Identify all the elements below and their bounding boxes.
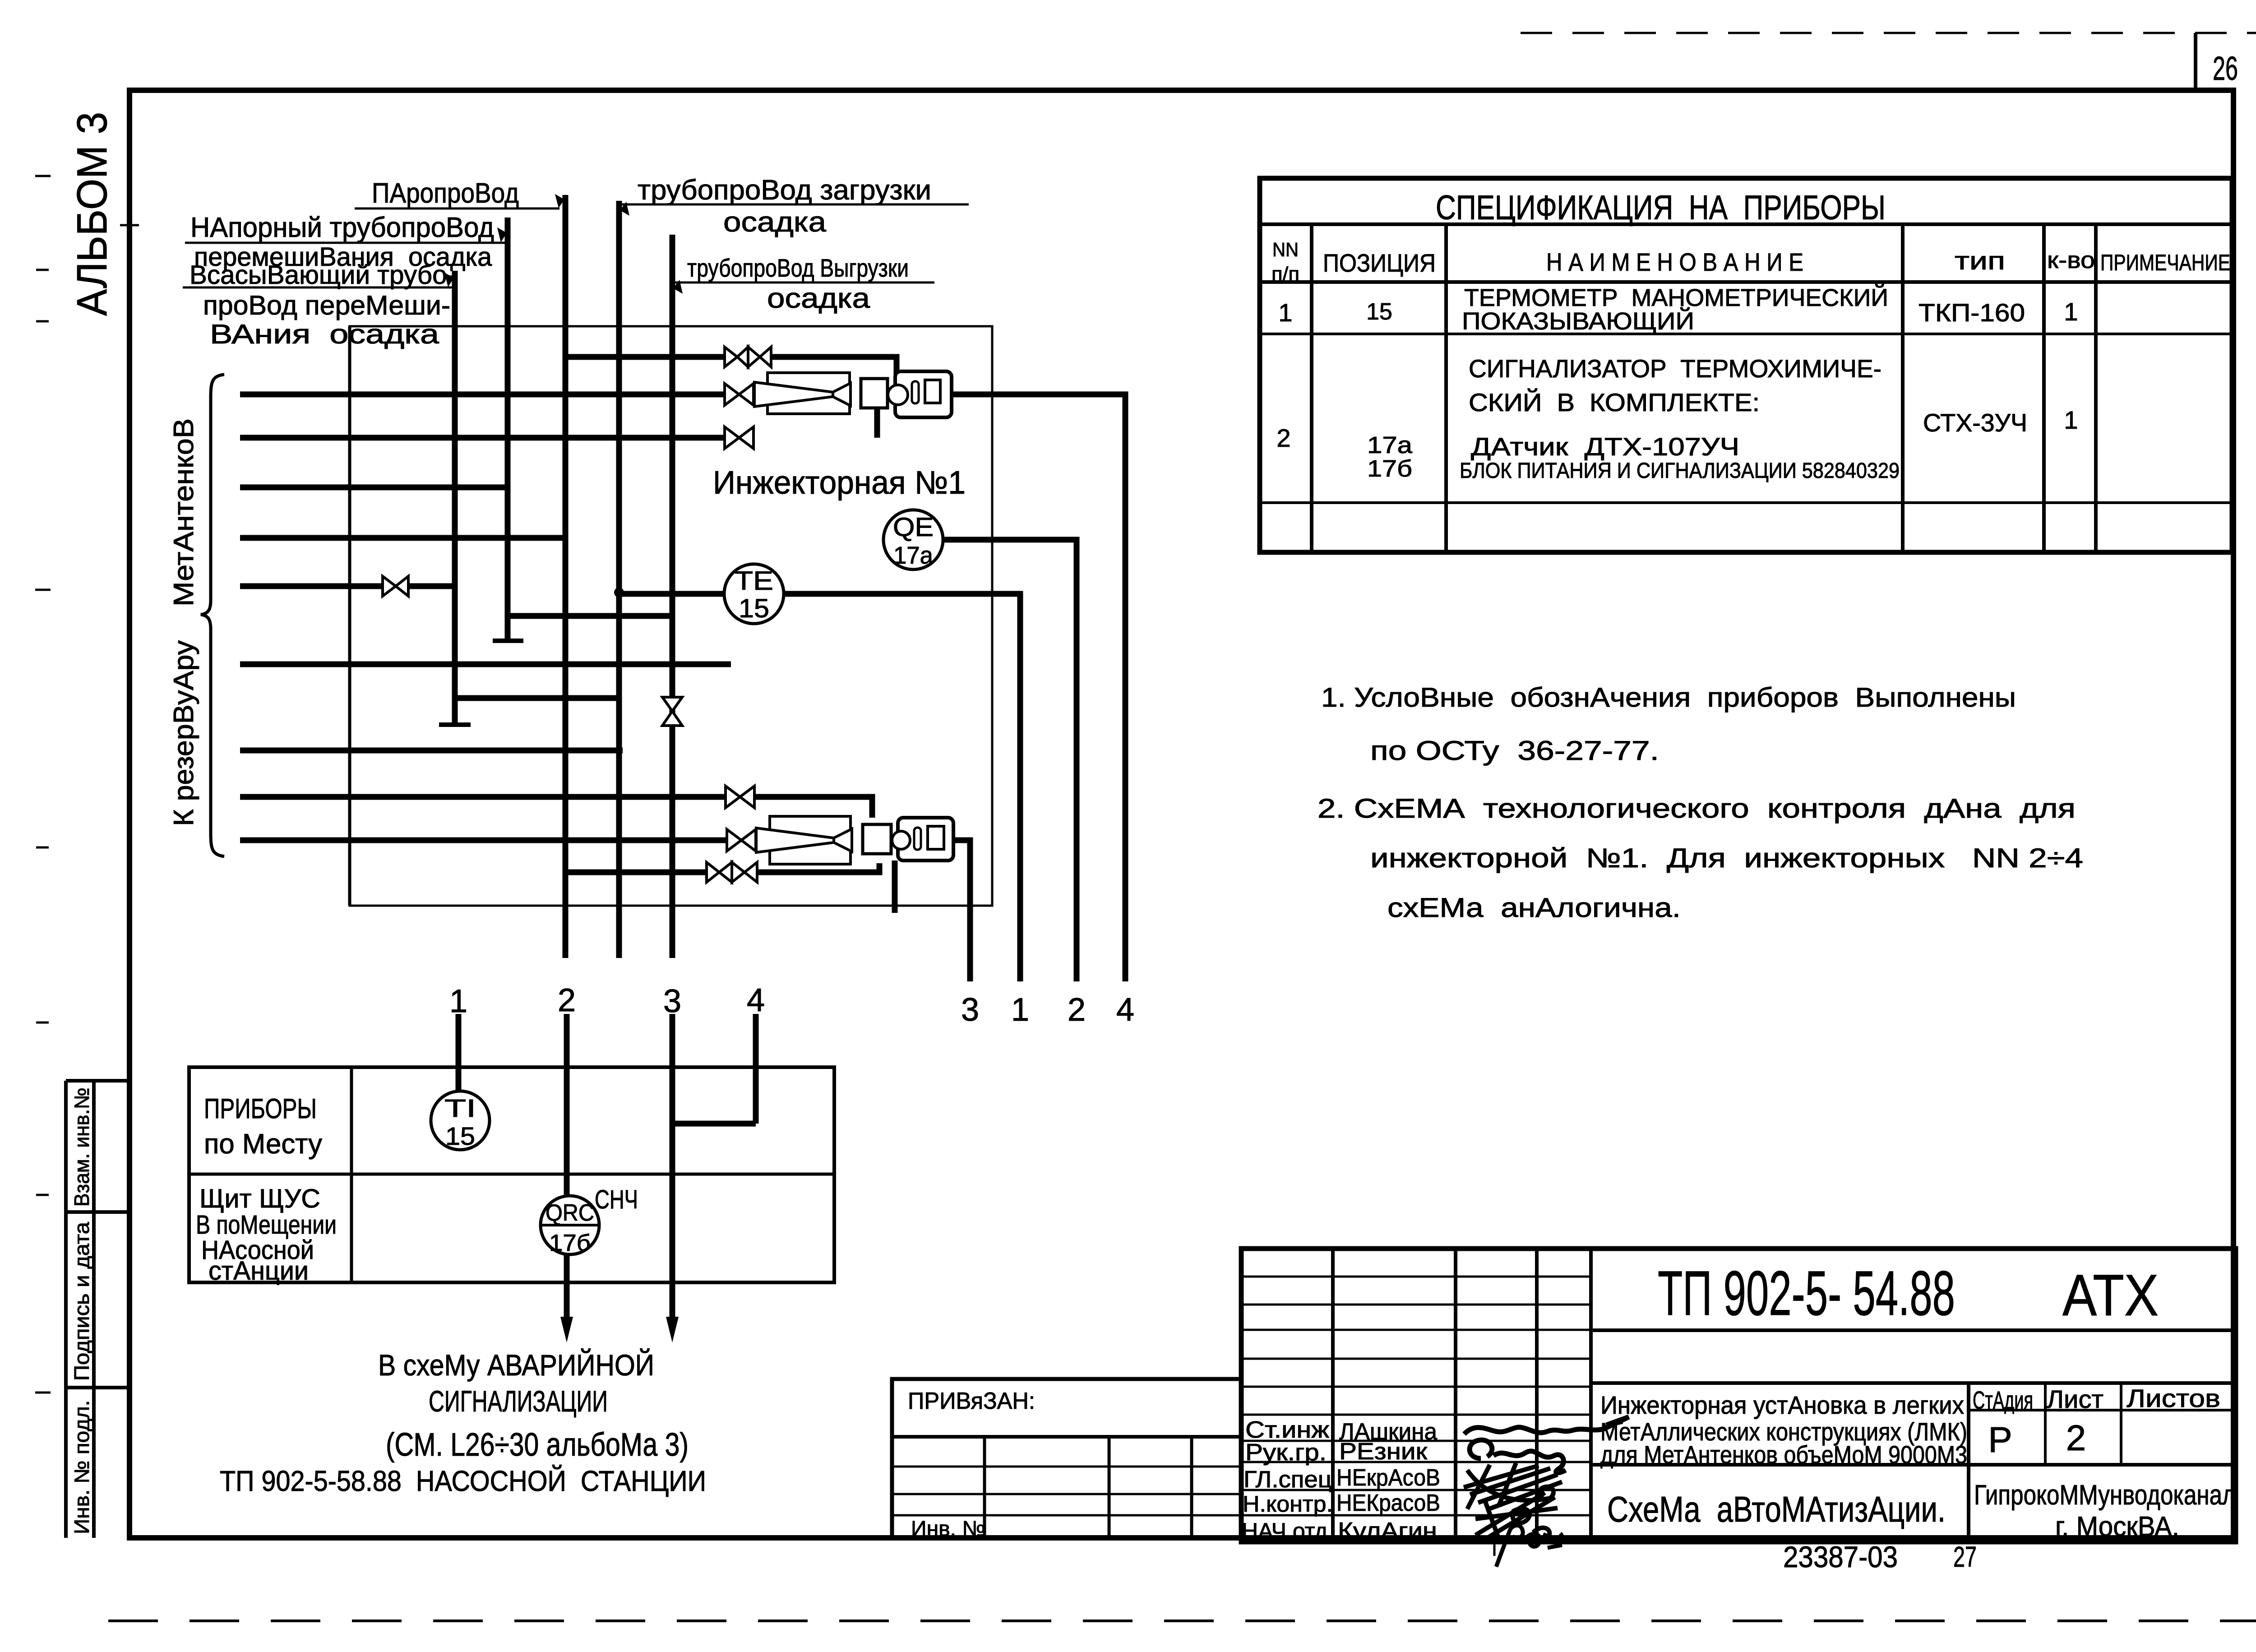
steam branch after valves [770,357,897,385]
svg-text:QE: QE [893,513,934,542]
injector 1 outlet to right riser 4 [951,394,1125,981]
svg-text:Инв. №: Инв. № [911,1517,985,1541]
spec column тип [2042,224,2046,552]
injector 2 pump block [863,824,891,854]
left margin fold marks [35,176,51,1393]
svg-text:трубопроВод Выгрузки: трубопроВод Выгрузки [687,254,909,282]
svg-text:ВАния осадка: ВАния осадка [210,319,439,349]
injector room enclosure (thin rect) [348,326,351,906]
riser V3 напорный [505,217,511,641]
svg-text:К резерВуАру: К резерВуАру [168,640,199,826]
instrument QRC17b [541,1196,599,1254]
injector 2 venturi cone [756,828,834,852]
svg-text:по Месту: по Месту [204,1129,322,1160]
pipe H2 return [240,435,725,441]
arrow to riser V3 [497,227,507,242]
line 3 full [670,1014,675,1324]
location table frame [189,1067,834,1282]
svg-text:ТЕРМОМЕТР МАНОМЕТРИЧЕСКИЙ: ТЕРМОМЕТР МАНОМЕТРИЧЕСКИЙ [1464,284,1888,311]
injector 1 circle [888,385,908,405]
svg-text:15: 15 [739,594,769,623]
H2 return riser at injector 1 [874,409,880,438]
привязан rows [892,1466,1240,1468]
лист divider [2044,1383,2047,1465]
svg-text:1: 1 [2064,406,2078,434]
injector 2 outlet to right riser 3 [953,840,970,981]
svg-text:ТП 902-5-58.88 НАСОСНОЙ СТАН: ТП 902-5-58.88 НАСОСНОЙ СТАНЦИИ [220,1464,706,1497]
valve on H9 [727,829,756,851]
svg-text:к-во: к-во [2047,247,2095,273]
svg-text:23387-03: 23387-03 [1783,1540,1898,1573]
svg-text:АТХ: АТХ [2062,1262,2159,1328]
junction dot on V5 [614,588,624,597]
double valve on steam branch [725,347,771,367]
injector 2 circle [892,831,910,849]
svg-text:НЕКрасоВ: НЕКрасоВ [1336,1490,1440,1516]
svg-text:МетАнтенкоВ: МетАнтенкоВ [168,418,199,606]
underline загрузки [617,204,969,206]
svg-text:ВсасыВающий трубо-: ВсасыВающий трубо- [190,260,456,290]
svg-text:БЛОК ПИТАНИЯ И СИГНАЛИЗАЦИИ 58: БЛОК ПИТАНИЯ И СИГНАЛИЗАЦИИ 582840329 [1460,459,1900,483]
стадия column divider [1967,1383,1970,1543]
pipe H8 to injector 2 [240,794,726,800]
svg-text:26: 26 [2213,50,2238,87]
svg-text:Р: Р [1988,1420,2012,1460]
svg-text:NN: NN [1272,239,1299,261]
injector 2 drain stub [892,861,898,913]
pipe H1 to injector 1 [240,392,725,398]
svg-text:2: 2 [1068,992,1086,1028]
instrument TE15 [724,564,784,624]
svg-text:РЕзник: РЕзник [1339,1439,1427,1465]
injector 1 diffuser [833,383,851,406]
svg-text:1. УслоВные обознАчения приб: 1. УслоВные обознАчения приборов Выполне… [1321,682,2016,713]
valve on H2 [725,427,754,449]
svg-text:27: 27 [1953,1541,1977,1573]
spec table header bottom line [1260,280,2232,284]
line 2 upper [564,1014,570,1197]
V2 end cap [439,722,471,727]
bottom branch C after valves [757,863,879,872]
arrow to steam riser [555,194,564,208]
svg-text:2: 2 [2066,1418,2086,1458]
injector 2 diffuser [834,829,852,851]
svg-text:СТХ-3УЧ: СТХ-3УЧ [1923,408,2027,437]
title block column 1 [1331,1249,1335,1543]
svg-text:п/п: п/п [1271,263,1299,285]
svg-text:стАнции: стАнции [208,1256,309,1286]
lower risers label row: line 1 [456,1014,462,1091]
bottom branch line C [565,870,707,875]
привязан block outline [892,1379,1240,1538]
svg-text:ПРИБОРЫ: ПРИБОРЫ [204,1093,317,1124]
crossover jog V3-V6 [506,613,671,619]
underline напорный [185,242,509,244]
svg-text:Взам. инв.№: Взам. инв.№ [70,1087,93,1207]
svg-text:2: 2 [558,982,576,1018]
riser V4 паропровод [563,195,569,958]
top trim dashed line [1521,32,2256,34]
svg-text:Н.контр.: Н.контр. [1243,1491,1333,1517]
svg-text:17а: 17а [893,542,934,569]
sheet number divider [2194,33,2197,93]
title block column 2 [1454,1249,1457,1543]
injector 1 box square [925,380,940,403]
svg-text:Щит ЩУС: Щит ЩУС [199,1184,320,1213]
injector 2 box bar [914,828,921,850]
svg-text:ПАропроВод: ПАропроВод [372,178,519,209]
svg-text:осадка: осадка [767,283,870,314]
svg-text:4: 4 [747,982,765,1018]
injector 1 mixer rect [767,373,850,414]
pipe H7 [240,748,623,754]
brace к резервуару метантенков [201,375,224,856]
riser V6 выгрузки [670,235,675,958]
svg-text:Листов: Листов [2127,1384,2220,1412]
svg-text:3: 3 [663,983,681,1019]
svg-text:для МетАнтенков объеМоМ 9000М3: для МетАнтенков объеМоМ 9000М3 [1600,1440,1967,1469]
line 4 [753,1014,759,1124]
injector 1 instrument box [895,371,952,417]
riser V2 всасывающий [452,271,458,725]
TE line to right riser 1 [784,594,1020,981]
svg-text:2: 2 [1276,424,1290,452]
svg-text:осадка: осадка [723,207,827,238]
injector 2 box square [928,826,944,849]
pipe H8 segment after valve [754,797,872,818]
spec table row2 line [1260,501,2232,504]
doc number field bottom [1591,1328,2236,1332]
svg-text:по ОСТу 36-27-77.: по ОСТу 36-27-77. [1370,736,1659,766]
листов divider [2120,1383,2122,1465]
svg-text:1: 1 [2064,297,2078,326]
svg-text:СКИЙ В КОМПЛЕКТЕ:: СКИЙ В КОМПЛЕКТЕ: [1469,388,1760,416]
svg-text:СПЕЦИФИКАЦИЯ НА ПРИБОРЫ: СПЕЦИФИКАЦИЯ НА ПРИБОРЫ [1436,189,1886,227]
jog line4 to line3 [672,1121,756,1127]
привязан title line [892,1435,1240,1439]
frame tick mark [120,224,139,227]
pipe H6 [240,662,731,667]
svg-text:СНЧ: СНЧ [595,1185,638,1214]
svg-text:Н А И М Е Н О В А Н И Е: Н А И М Е Н О В А Н И Е [1546,248,1803,276]
svg-text:ТП 902-5- 54.88: ТП 902-5- 54.88 [1658,1258,1955,1328]
svg-text:Инжекторная устАновка в легких: Инжекторная устАновка в легких [1600,1391,1964,1419]
TE sensing line [619,591,724,597]
underline паропровод [355,208,559,210]
svg-text:1: 1 [1011,992,1029,1028]
crossover jog V2-V5 [454,695,619,701]
steam branch line [565,354,725,360]
pipe H9 [240,838,727,843]
svg-text:инжекторной №1. Для инжекто: инжекторной №1. Для инжекторных NN 2÷4 [1370,843,2083,873]
injector 1 pump block [861,379,888,408]
arrow line 3 [666,1317,679,1342]
spec column наименование [1901,224,1905,552]
svg-text:3: 3 [961,992,979,1028]
svg-text:QRC: QRC [546,1200,594,1226]
svg-text:ПОКАЗЫВАЮЩИЙ: ПОКАЗЫВАЮЩИЙ [1462,307,1694,335]
svg-text:(СМ. L26÷30 альбоМа 3): (СМ. L26÷30 альбоМа 3) [386,1427,689,1463]
arrow to riser V6 [673,280,683,294]
svg-text:В схеМу АВАРИЙНОЙ: В схеМу АВАРИЙНОЙ [378,1348,654,1382]
pipe H5 [240,583,383,589]
svg-text:4: 4 [1116,992,1134,1028]
svg-text:СИГНАЛИЗАЦИИ: СИГНАЛИЗАЦИИ [429,1384,608,1418]
vertical valve on V6 [662,697,682,726]
double valve on branch C [707,862,757,882]
location table divider vertical [350,1067,353,1282]
arrow line 2 [560,1317,573,1342]
svg-text:ГипрокоММунводоканал: ГипрокоММунводоканал [1974,1480,2236,1511]
title mid bottom line [1591,1463,2236,1467]
svg-text:Лист: Лист [2047,1385,2103,1413]
svg-text:17а: 17а [1367,432,1412,458]
signature scribble 1 [1464,1417,1629,1434]
arrow to riser V5 [620,202,629,216]
riser V5 загрузки [616,201,622,958]
svg-text:ТКП-160: ТКП-160 [1919,298,2025,327]
svg-text:Рук.гр.: Рук.гр. [1245,1439,1327,1466]
svg-text:СИГНАЛИЗАТОР ТЕРМОХИМИЧЕ-: СИГНАЛИЗАТОР ТЕРМОХИМИЧЕ- [1469,354,1882,383]
svg-text:17б: 17б [549,1230,591,1256]
svg-text:Инв. № подл.: Инв. № подл. [70,1400,93,1534]
стадия header bottom [1969,1409,2236,1411]
injector 2 instrument box [898,818,953,861]
svg-text:АЛЬБОМ 3: АЛЬБОМ 3 [68,112,116,316]
svg-text:НЕкрАсоВ: НЕкрАсоВ [1336,1465,1440,1491]
svg-text:1: 1 [1278,298,1292,327]
injector 1 box bar [912,381,919,403]
svg-text:Подпись и дата: Подпись и дата [70,1222,93,1381]
signature scribble 3 [1464,1463,1562,1509]
svg-text:15: 15 [445,1122,475,1150]
svg-text:НАпорный трубопроВод: НАпорный трубопроВод [190,212,494,243]
svg-text:TI: TI [444,1094,476,1122]
svg-text:СхеМа аВтоМАтизАции.: СхеМа аВтоМАтизАции. [1607,1489,1946,1529]
svg-text:17б: 17б [1367,456,1412,482]
injector 1 venturi cone [754,382,833,407]
arrow to riser V2 [444,273,454,287]
spec table title row line [1260,222,2232,226]
svg-text:15: 15 [1366,299,1392,325]
svg-text:тип: тип [1955,246,2005,275]
svg-text:ПОЗИЦИЯ: ПОЗИЦИЯ [1323,249,1436,277]
svg-text:схЕМа анАлогична.: схЕМа анАлогична. [1387,893,1681,923]
valve on H8 [726,786,754,808]
spec column позиция [1444,224,1448,552]
title block column 4 / doc field edge [1589,1249,1593,1543]
spec column к-во [2094,224,2098,552]
spec column NN [1310,224,1313,552]
svg-text:КулАгин: КулАгин [1338,1518,1437,1544]
pipe H5 segment after valve [408,583,455,589]
svg-text:проВод переМеши-: проВод переМеши- [203,290,450,320]
instrument QE17a [883,510,943,569]
bottom trim dashed line [108,1620,2256,1622]
svg-text:СтАдия: СтАдия [1973,1386,2033,1414]
svg-text:ТЕ: ТЕ [735,566,773,596]
pipe H4 [240,535,565,541]
svg-text:ПРИМЕЧАНИЕ: ПРИМЕЧАНИЕ [2100,250,2230,275]
valve on H1 [725,384,754,405]
bottom tick mark [1493,1539,1496,1556]
spec table outer frame [1260,178,2232,552]
svg-text:ПРИВяЗАН:: ПРИВяЗАН: [908,1388,1035,1414]
привязан verticals [983,1437,986,1538]
svg-text:ДАтчик ДТХ-107УЧ: ДАтчик ДТХ-107УЧ [1471,432,1739,461]
svg-text:Инжекторная №1: Инжекторная №1 [713,465,966,501]
svg-text:г. МоскВА.: г. МоскВА. [2055,1511,2179,1542]
svg-text:трубопроВод загрузки: трубопроВод загрузки [638,175,931,206]
signature scribble 4 [1475,1493,1558,1541]
stamp column boxes [66,1081,129,1538]
title block left rows [1241,1277,1591,1515]
signature scribble 5 [1496,1525,1562,1567]
underline выгрузки [672,282,934,284]
svg-text:ГЛ.спец: ГЛ.спец [1244,1467,1332,1493]
injector 2 mixer rect [770,816,851,864]
pipe H3 [240,485,508,491]
location table divider horizontal [189,1173,834,1176]
valve on H5 [383,576,408,596]
svg-text:2. СхЕМА технологического ко: 2. СхЕМА технологического контроля дАна … [1318,793,2076,824]
QE line to right riser 2 [943,540,1077,981]
doc title field top [1591,1381,2236,1385]
V3 end cap [493,639,523,643]
svg-text:1: 1 [449,983,467,1019]
title block column 3 [1535,1249,1539,1543]
spec table row1 line [1260,333,2232,335]
underline всасывающий [183,287,457,289]
instrument TI15 [431,1091,490,1150]
line 2 lower with arrow [564,1254,570,1324]
title block outer [1241,1249,2236,1542]
svg-text:НАЧ.отд.: НАЧ.отд. [1242,1518,1334,1544]
signature scribble 2 [1470,1440,1566,1473]
